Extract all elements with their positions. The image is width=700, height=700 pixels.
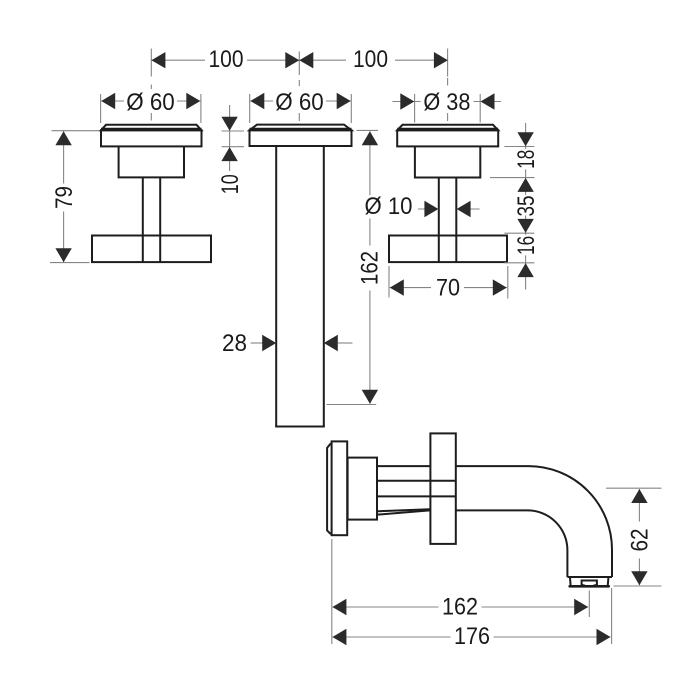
arrow Ø38 right (outside) <box>481 93 495 109</box>
arrow Ø10 left <box>424 201 438 217</box>
spout supply pipes <box>377 465 430 467</box>
arrow 62 bottom <box>631 571 647 585</box>
arrow 62 top <box>631 489 647 503</box>
dimension 10 (middle escutcheon) line <box>229 105 231 171</box>
svg-text:Ø 10: Ø 10 <box>365 193 413 220</box>
svg-text:18: 18 <box>513 150 540 169</box>
dimension 28 left line+arrow <box>251 342 263 344</box>
left handle bar <box>92 236 211 263</box>
right escutcheon <box>397 130 498 146</box>
arrow 100 right <box>434 52 448 68</box>
left top plate <box>101 125 202 131</box>
svg-text:Ø 60: Ø 60 <box>275 89 324 116</box>
dimension Ø38 line <box>393 101 502 103</box>
dimension 62 line <box>638 489 640 585</box>
svg-text:100: 100 <box>353 46 388 73</box>
arrow 162 bottom-left <box>332 599 346 615</box>
right handle cone <box>415 146 480 177</box>
svg-text:62: 62 <box>627 529 654 552</box>
svg-text:100: 100 <box>209 46 244 73</box>
svg-text:162: 162 <box>357 251 384 285</box>
arrow 70 right <box>493 279 507 295</box>
dimension 79 line <box>63 131 65 262</box>
arrow Ø60 left-left <box>101 93 115 109</box>
svg-text:162: 162 <box>442 594 478 621</box>
svg-text:70: 70 <box>436 275 460 302</box>
dimension 162/176 left extension line <box>331 539 333 644</box>
right top plate <box>397 125 498 131</box>
middle escutcheon <box>250 130 352 146</box>
dimension 28 right arrow+tail <box>324 335 338 351</box>
spout wedge lines <box>378 509 430 511</box>
arrow 162 bottom-right <box>574 599 588 615</box>
arrow Ø10 right <box>457 201 471 217</box>
dimension 62 ticks <box>606 487 662 489</box>
dimension 162 (top view) line <box>369 131 371 404</box>
right handle bar <box>389 236 507 263</box>
arrow Ø60 left-right <box>186 93 200 109</box>
middle spout pipe <box>275 146 277 427</box>
tick 35/16 <box>504 232 534 234</box>
dimension 176 line <box>332 636 610 638</box>
spout tube outline <box>456 466 612 577</box>
extension lines Ø60 middle <box>249 94 251 123</box>
arrow bowtie middle <box>285 52 313 68</box>
arrow above 146.5 pointing down <box>517 132 533 146</box>
arrow below 177.6 pointing up <box>517 178 533 192</box>
svg-text:28: 28 <box>222 330 247 357</box>
dimension 79 extension top tick <box>52 130 103 132</box>
right stack dimension line (18/35/16) <box>525 123 527 290</box>
svg-text:10: 10 <box>217 174 244 194</box>
tick 16 bottom <box>504 262 534 264</box>
dimension Ø60 middle line <box>250 100 352 102</box>
aerator insert <box>582 581 597 586</box>
centerline middle fixture <box>298 52 300 122</box>
tick 18 top <box>504 146 534 148</box>
dimension 70 line <box>390 287 507 289</box>
dimension Ø60 left line <box>101 100 201 102</box>
left escutcheon <box>101 130 202 146</box>
left handle cone <box>119 146 184 177</box>
svg-text:Ø 38: Ø 38 <box>423 89 470 116</box>
svg-text:16: 16 <box>513 236 540 255</box>
arrow above 232.6 pointing down <box>517 219 533 233</box>
centerline left fixture <box>150 49 152 121</box>
arrow 176 right <box>597 629 611 645</box>
arrow Ø60 middle-left <box>250 93 264 109</box>
extension lines Ø60 left <box>100 94 102 123</box>
spout adapter block <box>348 458 377 520</box>
spout escutcheon (side view) <box>332 441 348 535</box>
dimension 10 ticks <box>222 130 244 132</box>
svg-text:Ø 60: Ø 60 <box>126 89 175 116</box>
spout outlet line <box>567 576 612 578</box>
spout escutcheon rim <box>327 443 331 534</box>
wall flange <box>430 433 455 544</box>
arrow 10 top (outside, points down) <box>221 117 237 131</box>
dimension 176 right extension line <box>611 588 613 644</box>
dimension 70 extension lines <box>388 266 390 298</box>
arrow 176 left <box>332 629 346 645</box>
left handle stem <box>142 177 144 262</box>
dimension 79 extension bottom tick <box>50 262 90 264</box>
dimension 162 (top view) bottom tick <box>327 404 377 406</box>
arrow Ø38 left (outside) <box>400 93 414 109</box>
arrow 10 bottom (outside, points up) <box>221 147 237 161</box>
arrow 70 left <box>390 279 404 295</box>
svg-text:176: 176 <box>454 623 490 650</box>
centerline right fixture <box>447 49 449 122</box>
tick 18/35 <box>490 177 534 179</box>
arrow 100 left <box>151 52 165 68</box>
arrow 162 bottom <box>362 390 378 404</box>
arrow below 262.8 pointing up <box>517 263 533 277</box>
arrow 79 bottom <box>55 248 71 262</box>
dimension Ø10 line <box>418 208 438 210</box>
dimension 162 bottom line <box>332 606 588 608</box>
dimension 100-100 line <box>151 59 448 61</box>
dimension 162 right extension line <box>588 591 590 618</box>
right handle stem <box>438 178 440 263</box>
dimension 162 (top view) top tick <box>357 129 379 131</box>
arrow Ø60 middle-right <box>337 93 351 109</box>
svg-text:79: 79 <box>51 186 78 209</box>
extension lines Ø38 right <box>414 94 416 123</box>
arrow 79 top <box>55 131 71 145</box>
svg-text:35: 35 <box>513 196 540 217</box>
arrow 162 top <box>362 131 378 145</box>
middle top plate <box>250 125 352 131</box>
aerator collar <box>569 578 572 585</box>
